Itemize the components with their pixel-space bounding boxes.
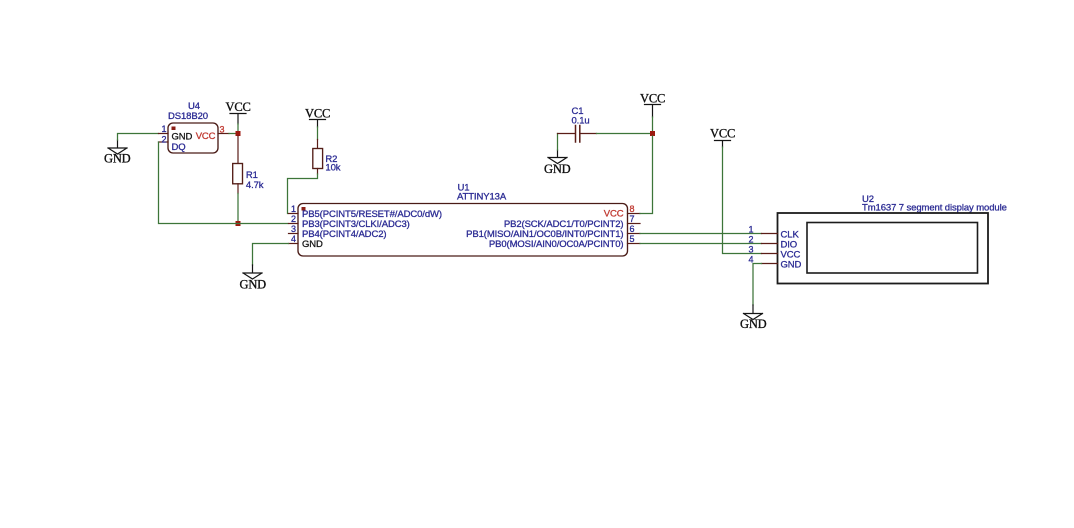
wire R2 bottom to U1 pin1 xyxy=(288,174,318,214)
svg-text:7: 7 xyxy=(630,214,635,224)
svg-text:PB0(MOSI/AIN0/OC0A/PCINT0): PB0(MOSI/AIN0/OC0A/PCINT0) xyxy=(489,239,624,250)
pin 4 of U1 xyxy=(289,234,299,244)
pin 3 of U4 xyxy=(218,125,229,135)
wire C1 to node C xyxy=(597,133,651,135)
wire VCC to U2 pin3 xyxy=(723,147,762,254)
component U1 ATTINY13A xyxy=(298,183,628,257)
svg-text:VCC: VCC xyxy=(710,127,735,141)
svg-text:VCC: VCC xyxy=(640,92,665,106)
pin 1 of U4 xyxy=(159,124,169,134)
pin 5 of U1 xyxy=(628,234,641,244)
svg-text:3: 3 xyxy=(748,245,753,255)
pin 2 of U1 xyxy=(289,214,299,224)
pin 6 of U1 xyxy=(628,224,641,234)
svg-text:1: 1 xyxy=(162,124,167,134)
svg-text:GND: GND xyxy=(781,260,802,271)
ground GND1 (left of U4) xyxy=(104,140,131,166)
capacitor C1 xyxy=(558,106,597,142)
power VCC (above R2) xyxy=(305,107,330,128)
svg-text:VCC: VCC xyxy=(196,131,216,142)
component U4 DS18B20 xyxy=(168,101,218,153)
svg-text:6: 6 xyxy=(630,224,635,234)
pin 1 of U1 xyxy=(289,204,299,214)
svg-text:Tm1637 7 segment display modul: Tm1637 7 segment display module xyxy=(862,203,1007,214)
power VCC (above node C) xyxy=(640,92,665,118)
pin 4 of U2 xyxy=(748,255,777,265)
svg-text:2: 2 xyxy=(291,214,296,224)
svg-text:GND: GND xyxy=(104,152,131,166)
wire U2 pin4 to GND4 xyxy=(753,264,762,306)
svg-text:GND: GND xyxy=(740,317,767,331)
svg-text:5: 5 xyxy=(630,234,635,244)
svg-text:3: 3 xyxy=(291,224,296,234)
svg-text:3: 3 xyxy=(220,125,225,135)
ground GND4 (below U2) xyxy=(740,305,767,331)
svg-text:2: 2 xyxy=(748,235,753,245)
svg-text:ATTINY13A: ATTINY13A xyxy=(457,192,507,203)
ground GND3 (below U1) xyxy=(240,265,267,292)
svg-text:10k: 10k xyxy=(325,163,340,174)
node C junction (VCC / C1 / U1.8) xyxy=(650,131,655,136)
power VCC (above U2) xyxy=(710,127,735,148)
svg-text:VCC: VCC xyxy=(226,100,251,114)
wire VCC to R2 xyxy=(317,127,319,140)
wire R1 bottom to node B xyxy=(237,194,239,222)
resistor R2 xyxy=(313,140,341,175)
power VCC (above U4 pin3) xyxy=(226,100,251,124)
svg-text:2: 2 xyxy=(162,135,167,145)
wire VCC to node C xyxy=(652,117,654,131)
wire U4 pin2 (DQ) to U1 pin2 xyxy=(159,142,288,224)
wire U1 pin4 to GND xyxy=(253,244,289,266)
pin 8 of U1 xyxy=(628,204,641,214)
node A junction (VCC / U4.3 / R1) xyxy=(236,131,241,136)
pin 1 of U2 xyxy=(748,225,777,235)
wire VCC to node xyxy=(237,124,239,131)
svg-text:GND: GND xyxy=(172,132,193,143)
svg-text:DS18B20: DS18B20 xyxy=(168,111,208,122)
pin 3 of U1 xyxy=(289,224,299,234)
svg-text:VCC: VCC xyxy=(604,209,624,220)
wire U1 pin6 to U2 pin1 (CLK) xyxy=(640,233,762,235)
node B junction (R1 / DQ wire) xyxy=(236,221,241,226)
pin 3 of U2 xyxy=(748,245,777,255)
svg-text:VCC: VCC xyxy=(305,107,330,121)
svg-text:1: 1 xyxy=(748,225,753,235)
wire U4 pin1 to GND1 xyxy=(118,134,159,141)
svg-text:4.7k: 4.7k xyxy=(246,180,264,191)
ground GND2 (left of C1) xyxy=(544,150,571,176)
wire node C to U1 pin8 xyxy=(640,136,653,214)
svg-text:8: 8 xyxy=(630,204,635,214)
svg-text:GND: GND xyxy=(240,278,267,292)
component U2 Tm1637 display module xyxy=(778,194,1007,284)
pin 2 of U2 xyxy=(748,235,777,245)
svg-text:GND: GND xyxy=(302,239,323,250)
pin 2 of U4 xyxy=(159,135,169,145)
pin 7 of U1 xyxy=(628,214,641,224)
wire GND2 to C1 xyxy=(557,134,559,151)
wire U1 pin5 to U2 pin2 (DIO) xyxy=(640,243,762,245)
resistor R1 xyxy=(233,136,264,194)
svg-text:4: 4 xyxy=(291,234,296,244)
svg-text:1: 1 xyxy=(291,204,296,214)
wire U4 pin3 to node A xyxy=(229,133,236,135)
svg-text:DQ: DQ xyxy=(172,142,186,153)
svg-text:GND: GND xyxy=(544,162,571,176)
